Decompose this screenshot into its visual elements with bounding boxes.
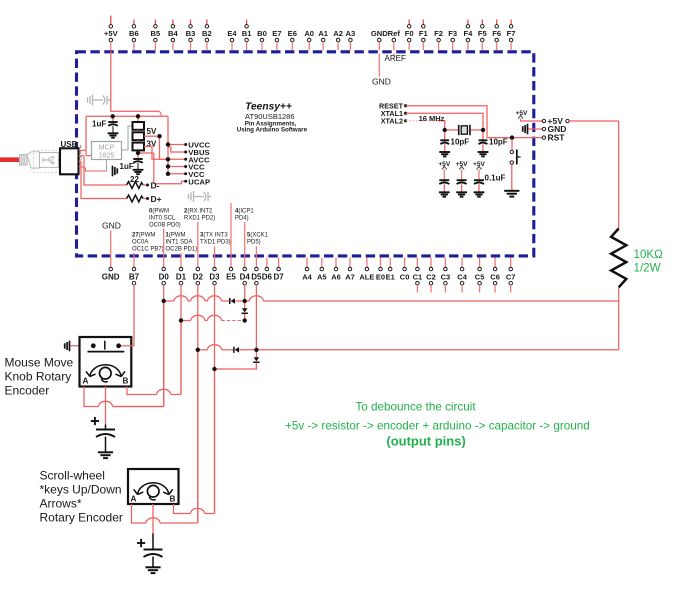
label scroll encoder <box>40 468 123 524</box>
svg-text:A: A <box>131 495 137 504</box>
svg-text:OC0B PD0): OC0B PD0) <box>149 223 181 229</box>
wire pad link <box>137 140 139 143</box>
node RST breakout <box>542 133 565 143</box>
svg-text:D-: D- <box>151 180 160 190</box>
svg-text:RST: RST <box>548 133 566 143</box>
wire +5V to pull-up resistor <box>569 120 619 122</box>
diode D4 vertical <box>242 308 248 313</box>
ghost component near D+ <box>189 191 212 202</box>
svg-text:C7: C7 <box>506 272 516 281</box>
pin D1 (bottom header) <box>176 253 187 395</box>
svg-text:D5: D5 <box>251 272 262 281</box>
svg-text:A7: A7 <box>345 272 355 281</box>
label 4(ICP1... <box>235 209 254 222</box>
svg-text:GND: GND <box>371 29 388 38</box>
resistor 22 ohm (D+) <box>127 195 144 202</box>
svg-text:GND: GND <box>102 272 120 281</box>
svg-text:F6: F6 <box>492 29 501 38</box>
pin F7 (top header) <box>507 20 516 51</box>
pin E6 (top header) <box>288 29 297 50</box>
wire pad to C2 <box>138 151 154 153</box>
ground (C1) <box>108 133 119 137</box>
ground (decoupling 3) <box>474 192 485 196</box>
wire USB D- <box>84 156 127 185</box>
pin A1 (top header) <box>318 29 328 50</box>
USB cable <box>0 157 20 162</box>
wire line A continues <box>235 296 618 301</box>
svg-text:Using Arduino Software: Using Arduino Software <box>237 127 308 134</box>
pin E7 (top header) <box>272 29 281 50</box>
svg-text:F1: F1 <box>419 29 429 38</box>
wire VCC vertical bus <box>167 116 169 174</box>
pin F3 (top header) <box>448 29 457 50</box>
svg-text:Mouse Move: Mouse Move <box>5 356 74 370</box>
svg-text:A4: A4 <box>302 272 312 281</box>
svg-text:3(TX INT3: 3(TX INT3 <box>200 233 228 239</box>
node +5V (decoupling 1) <box>438 161 451 180</box>
label mouse encoder <box>5 356 74 398</box>
pin B2 (top header) <box>202 20 212 51</box>
wire D4 diode to line B <box>244 314 246 321</box>
pin F0 (top header) <box>405 20 414 51</box>
wire +5V rail <box>86 115 168 117</box>
svg-text:+5v -> resistor -> encoder + a: +5v -> resistor -> encoder + arduino -> … <box>285 420 590 433</box>
node +5V breakout <box>542 116 569 126</box>
svg-text:10pF: 10pF <box>489 138 508 147</box>
pin GND (top header) <box>371 29 388 50</box>
wire RESET <box>406 106 542 138</box>
svg-text:C1: C1 <box>413 272 423 281</box>
wire pad output to VCC bus <box>144 135 160 137</box>
wire encoder A to D0 <box>84 303 164 407</box>
node AREF <box>385 53 406 62</box>
jumper pad 5V/3V (top) <box>133 122 145 130</box>
svg-text:D7: D7 <box>273 272 284 281</box>
pin A4 (bottom header) <box>302 258 312 282</box>
svg-text:C5: C5 <box>475 272 485 281</box>
label 5(XCK1... <box>247 233 269 246</box>
svg-text:1825: 1825 <box>99 152 115 159</box>
svg-text:+5V: +5V <box>516 110 529 117</box>
svg-text:Knob Rotary: Knob Rotary <box>5 370 72 384</box>
pin B5 (top header) <box>151 20 161 51</box>
svg-text:Ref: Ref <box>388 29 401 38</box>
pin D3 (bottom header) <box>209 247 220 514</box>
svg-text:1uF: 1uF <box>120 162 134 171</box>
svg-text:Rotary Encoder: Rotary Encoder <box>40 511 123 525</box>
wire GND reference <box>372 53 391 86</box>
node VCC <box>168 170 205 179</box>
svg-text:F2: F2 <box>434 29 443 38</box>
wire XTAL2 (dotted) <box>406 121 445 130</box>
pin B6 (top header) <box>129 20 139 51</box>
wire encoder B to D1 <box>127 323 181 395</box>
svg-text:E0: E0 <box>376 272 385 281</box>
USB pin 4 (GND) <box>79 161 107 171</box>
USB pin 3 (D+) <box>79 155 82 161</box>
capacitor 0.1uF #2 <box>457 180 467 192</box>
svg-text:RXD1 PD2): RXD1 PD2) <box>184 216 215 222</box>
diode D_A (line A) <box>230 298 235 304</box>
svg-text:F3: F3 <box>448 29 457 38</box>
wire encoder common to capacitor <box>105 387 107 425</box>
capacitor 0.1uF #3 <box>474 180 484 192</box>
pin D6 (bottom header) <box>262 258 273 282</box>
svg-text:D3: D3 <box>209 272 220 281</box>
pin D4 (bottom header) <box>240 222 251 308</box>
pin D5 (bottom header) <box>251 247 262 358</box>
resistor 10K 1/2W <box>611 229 663 288</box>
svg-text:ALE: ALE <box>359 272 374 281</box>
wire D5 diode to line D <box>255 363 257 369</box>
pin Ref (top header) <box>388 29 401 50</box>
svg-text:GND: GND <box>102 221 121 231</box>
svg-text:AREF: AREF <box>385 54 406 63</box>
capacitor C4 (scroll debounce, polarized) <box>137 539 163 567</box>
capacitor C2 1uF <box>120 153 143 171</box>
svg-text:Teensy++: Teensy++ <box>245 102 292 113</box>
Teensy++ board dashed outline <box>77 52 534 256</box>
svg-text:E6: E6 <box>288 29 297 38</box>
svg-text:5V: 5V <box>147 127 157 136</box>
ground (sideways, mouse encoder switch) <box>65 341 70 352</box>
pin A0 (top header) <box>304 29 314 50</box>
wire scroll common to capacitor <box>152 504 154 533</box>
svg-text:Scroll-wheel: Scroll-wheel <box>40 468 105 482</box>
svg-text:A0: A0 <box>304 29 314 38</box>
svg-text:C3: C3 <box>441 272 451 281</box>
pin F1 (top header) <box>419 20 429 51</box>
pin C5 (bottom header) <box>475 258 485 293</box>
svg-text:B6: B6 <box>129 29 139 38</box>
svg-text:D6: D6 <box>262 272 273 281</box>
capacitor C1 1uF <box>92 116 118 133</box>
svg-text:Arrows*: Arrows* <box>40 497 82 511</box>
USB connector J1 <box>60 140 79 174</box>
pin E0 (bottom header) <box>376 258 385 282</box>
svg-text:INT1 SDA: INT1 SDA <box>166 240 193 246</box>
rotary encoder ENC1 (mouse) <box>80 337 132 387</box>
node GND breakout <box>529 124 567 134</box>
node VCC <box>168 163 205 172</box>
svg-text:GND: GND <box>372 77 391 87</box>
ground (USB shell, sideways) <box>113 166 118 177</box>
node D- <box>143 180 160 190</box>
pin GND (bottom header) <box>102 231 120 282</box>
regulator U2 MCP1825 (ghost) <box>92 126 133 171</box>
pin F5 (top header) <box>478 20 488 51</box>
svg-text:0(PWM: 0(PWM <box>149 209 169 215</box>
resistor 22 ohm (D-) <box>127 175 144 188</box>
node AVCC <box>168 155 210 164</box>
capacitor C3 (mouse debounce, polarized) <box>91 417 115 452</box>
USB pin 1 (VBUS) <box>79 144 86 150</box>
ground (right 10pF) <box>478 152 489 156</box>
pin B1 (top header) <box>242 20 252 51</box>
capacitor 0.1uF #1 <box>439 180 449 192</box>
USB plug (ghost drawing) <box>20 150 68 172</box>
wire line C continues <box>240 349 619 351</box>
svg-text:D1: D1 <box>176 272 187 281</box>
svg-text:OC2B PD1): OC2B PD1) <box>166 247 198 253</box>
svg-text:B0: B0 <box>257 29 267 38</box>
wire UCAP net <box>153 153 155 184</box>
svg-text:D2: D2 <box>193 272 204 281</box>
wire XTAL1 <box>406 113 483 130</box>
wire +5V feed <box>111 51 161 116</box>
svg-text:E7: E7 <box>272 29 281 38</box>
svg-text:To debounce the circuit: To debounce the circuit <box>355 400 476 413</box>
diode D5 vertical <box>253 357 259 362</box>
wire rail to pads <box>137 116 139 122</box>
svg-text:1uF: 1uF <box>92 120 106 129</box>
svg-text:B5: B5 <box>151 29 161 38</box>
svg-text:B3: B3 <box>186 29 196 38</box>
svg-text:2: 2 <box>79 150 82 155</box>
svg-text:USB: USB <box>61 140 78 149</box>
USB pin 2 (D-) <box>79 150 84 156</box>
svg-text:10KΩ: 10KΩ <box>634 248 664 261</box>
pin D0 (bottom header) <box>159 229 170 407</box>
pin A6 (bottom header) <box>331 258 341 282</box>
node UVCC <box>168 141 211 150</box>
node XTAL1 <box>381 109 407 118</box>
svg-text:27(PWM: 27(PWM <box>132 233 155 239</box>
node UCAP <box>154 177 210 186</box>
pin C4 (bottom header) <box>457 258 467 293</box>
capacitor 10pF (left) <box>440 130 469 152</box>
pushbutton SW1 (reset) <box>510 138 521 191</box>
svg-text:3: 3 <box>79 155 82 160</box>
annotation debounce note <box>285 400 590 448</box>
wire 5V select to AVCC bus <box>160 136 169 159</box>
svg-text:F0: F0 <box>405 29 414 38</box>
jumper pad (middle) <box>133 132 145 140</box>
wire scroll A to D2 <box>132 352 198 523</box>
wire pad link <box>137 130 139 133</box>
node VBUS <box>168 147 210 157</box>
pin F6 (top header) <box>492 20 501 51</box>
ghost component (unpopulated) near +5V feed <box>88 95 111 106</box>
wire USB D+ <box>81 161 127 198</box>
svg-text:B4: B4 <box>168 29 178 38</box>
diode D_C (line C) <box>234 347 239 353</box>
ground (left 10pF) <box>439 152 450 156</box>
svg-text:*keys Up/Down: *keys Up/Down <box>40 482 122 496</box>
svg-text:PD4): PD4) <box>235 216 249 222</box>
pin B7 (bottom header) <box>129 253 140 346</box>
svg-text:UCAP: UCAP <box>188 177 210 186</box>
node XTAL2 <box>381 116 407 125</box>
svg-text:MCP: MCP <box>99 144 115 151</box>
pin B0 (top header) <box>257 29 267 50</box>
svg-text:(output pins): (output pins) <box>386 434 465 449</box>
svg-text:1: 1 <box>79 144 82 149</box>
svg-text:D+: D+ <box>151 194 162 204</box>
wire resistor bottom <box>618 287 620 350</box>
pin +5V (top header) <box>104 16 119 51</box>
svg-text:A: A <box>83 377 89 386</box>
jumper pad (bottom) <box>133 143 145 151</box>
node D+ <box>143 194 162 204</box>
pin C1 (bottom header) <box>413 258 423 293</box>
pin C7 (bottom header) <box>506 258 516 293</box>
svg-text:F4: F4 <box>463 29 473 38</box>
pin C0 (bottom header) <box>400 258 410 282</box>
svg-text:F7: F7 <box>507 29 516 38</box>
ground (pushbutton) <box>504 191 519 197</box>
node +5V (internal) <box>516 110 543 121</box>
capacitor 10pF (right) <box>479 130 508 152</box>
svg-text:B1: B1 <box>242 29 252 38</box>
label 3(TX INT3... <box>200 233 231 246</box>
ground (mouse capacitor) <box>98 452 113 458</box>
pin D2 (bottom header) <box>193 222 204 523</box>
pin A2 (top header) <box>333 29 343 50</box>
svg-text:Encoder: Encoder <box>5 384 50 398</box>
wire VBUS to rail and MCP input <box>86 116 92 155</box>
svg-text:E4: E4 <box>227 29 237 38</box>
pin F2 (top header) <box>434 29 443 50</box>
svg-text:+5V: +5V <box>104 29 119 38</box>
label 0(PWM... <box>149 209 181 229</box>
pin F4 (top header) <box>463 20 473 51</box>
wire 3V pad to AVCC bus <box>144 147 168 160</box>
svg-text:PD5): PD5) <box>247 240 261 246</box>
svg-text:D0: D0 <box>159 272 170 281</box>
pin A3 (top header) <box>346 29 356 50</box>
wire line B (D1 to D4) <box>181 315 243 320</box>
wire line D (D3 to D5) <box>215 363 257 369</box>
svg-text:1/2W: 1/2W <box>634 261 661 274</box>
svg-text:OC1C PB7): OC1C PB7) <box>132 247 164 253</box>
ground (sideways, GND breakout) <box>523 124 528 135</box>
wire line A (D0 to pull-up) <box>164 296 229 301</box>
svg-text:TXD1 PD3): TXD1 PD3) <box>200 240 231 246</box>
svg-text:C6: C6 <box>490 272 500 281</box>
pin C6 (bottom header) <box>490 258 500 293</box>
wire +5V down right side <box>618 121 620 229</box>
svg-text:B2: B2 <box>202 29 212 38</box>
svg-text:0.1uF: 0.1uF <box>485 174 506 183</box>
svg-text:A6: A6 <box>331 272 341 281</box>
label 2(RX INT2... <box>184 209 215 222</box>
svg-text:A2: A2 <box>333 29 343 38</box>
ground (scroll capacitor) <box>145 567 160 573</box>
pin B4 (top header) <box>168 20 178 51</box>
svg-text:5(XCK1: 5(XCK1 <box>247 233 269 239</box>
node RESET <box>379 101 407 110</box>
crystal Y1 16 MHz <box>419 114 483 135</box>
pin E1 (bottom header) <box>386 258 395 282</box>
svg-text:2(RX INT2: 2(RX INT2 <box>184 209 213 215</box>
svg-text:B7: B7 <box>129 272 140 281</box>
svg-text:C4: C4 <box>457 272 467 281</box>
svg-text:1(PWM: 1(PWM <box>166 233 186 239</box>
ground (decoupling 1) <box>439 192 450 196</box>
pin E5 (bottom header) <box>226 203 236 281</box>
pin D7 (bottom header) <box>273 258 284 282</box>
rotary encoder ENC2 (scroll) <box>128 469 179 504</box>
wire switch left contact <box>71 345 93 347</box>
label 1(PWM... <box>166 233 198 253</box>
svg-text:A3: A3 <box>346 29 356 38</box>
svg-text:D4: D4 <box>240 272 251 281</box>
pin ALE (bottom header) <box>359 258 374 282</box>
title Teensy++ <box>237 102 308 134</box>
svg-text:10pF: 10pF <box>451 138 470 147</box>
ground (C2) <box>133 170 144 174</box>
wire switch right contact to B7 <box>120 345 134 347</box>
pin C2 (bottom header) <box>426 258 436 293</box>
wire line C (D2 to pull-up) <box>198 345 233 350</box>
svg-text:B: B <box>170 495 176 504</box>
svg-text:C2: C2 <box>426 272 436 281</box>
pin A7 (bottom header) <box>345 258 355 282</box>
node +5V (decoupling 3) <box>473 161 486 180</box>
svg-text:B: B <box>123 377 129 386</box>
svg-text:E1: E1 <box>386 272 395 281</box>
svg-text:A5: A5 <box>317 272 327 281</box>
svg-text:INT0 SCL: INT0 SCL <box>149 216 176 222</box>
svg-text:OC0A: OC0A <box>132 240 148 246</box>
node +5V (decoupling 2) <box>456 161 469 180</box>
svg-text:F5: F5 <box>478 29 488 38</box>
svg-text:A1: A1 <box>318 29 328 38</box>
ground (decoupling 2) <box>456 192 467 196</box>
label 27(PWM... <box>132 233 164 253</box>
junction dots (solder points) <box>91 114 514 371</box>
pin B3 (top header) <box>186 20 196 51</box>
svg-text:E5: E5 <box>226 272 236 281</box>
svg-text:4(ICP1: 4(ICP1 <box>235 209 254 215</box>
pin A5 (bottom header) <box>317 258 327 282</box>
wire scroll B to D3 <box>174 371 215 514</box>
svg-text:C0: C0 <box>400 272 410 281</box>
pin C3 (bottom header) <box>441 258 451 293</box>
svg-text:16 MHz: 16 MHz <box>419 114 445 123</box>
svg-text:XTAL2: XTAL2 <box>381 116 403 125</box>
pin E4 (top header) <box>227 29 237 50</box>
